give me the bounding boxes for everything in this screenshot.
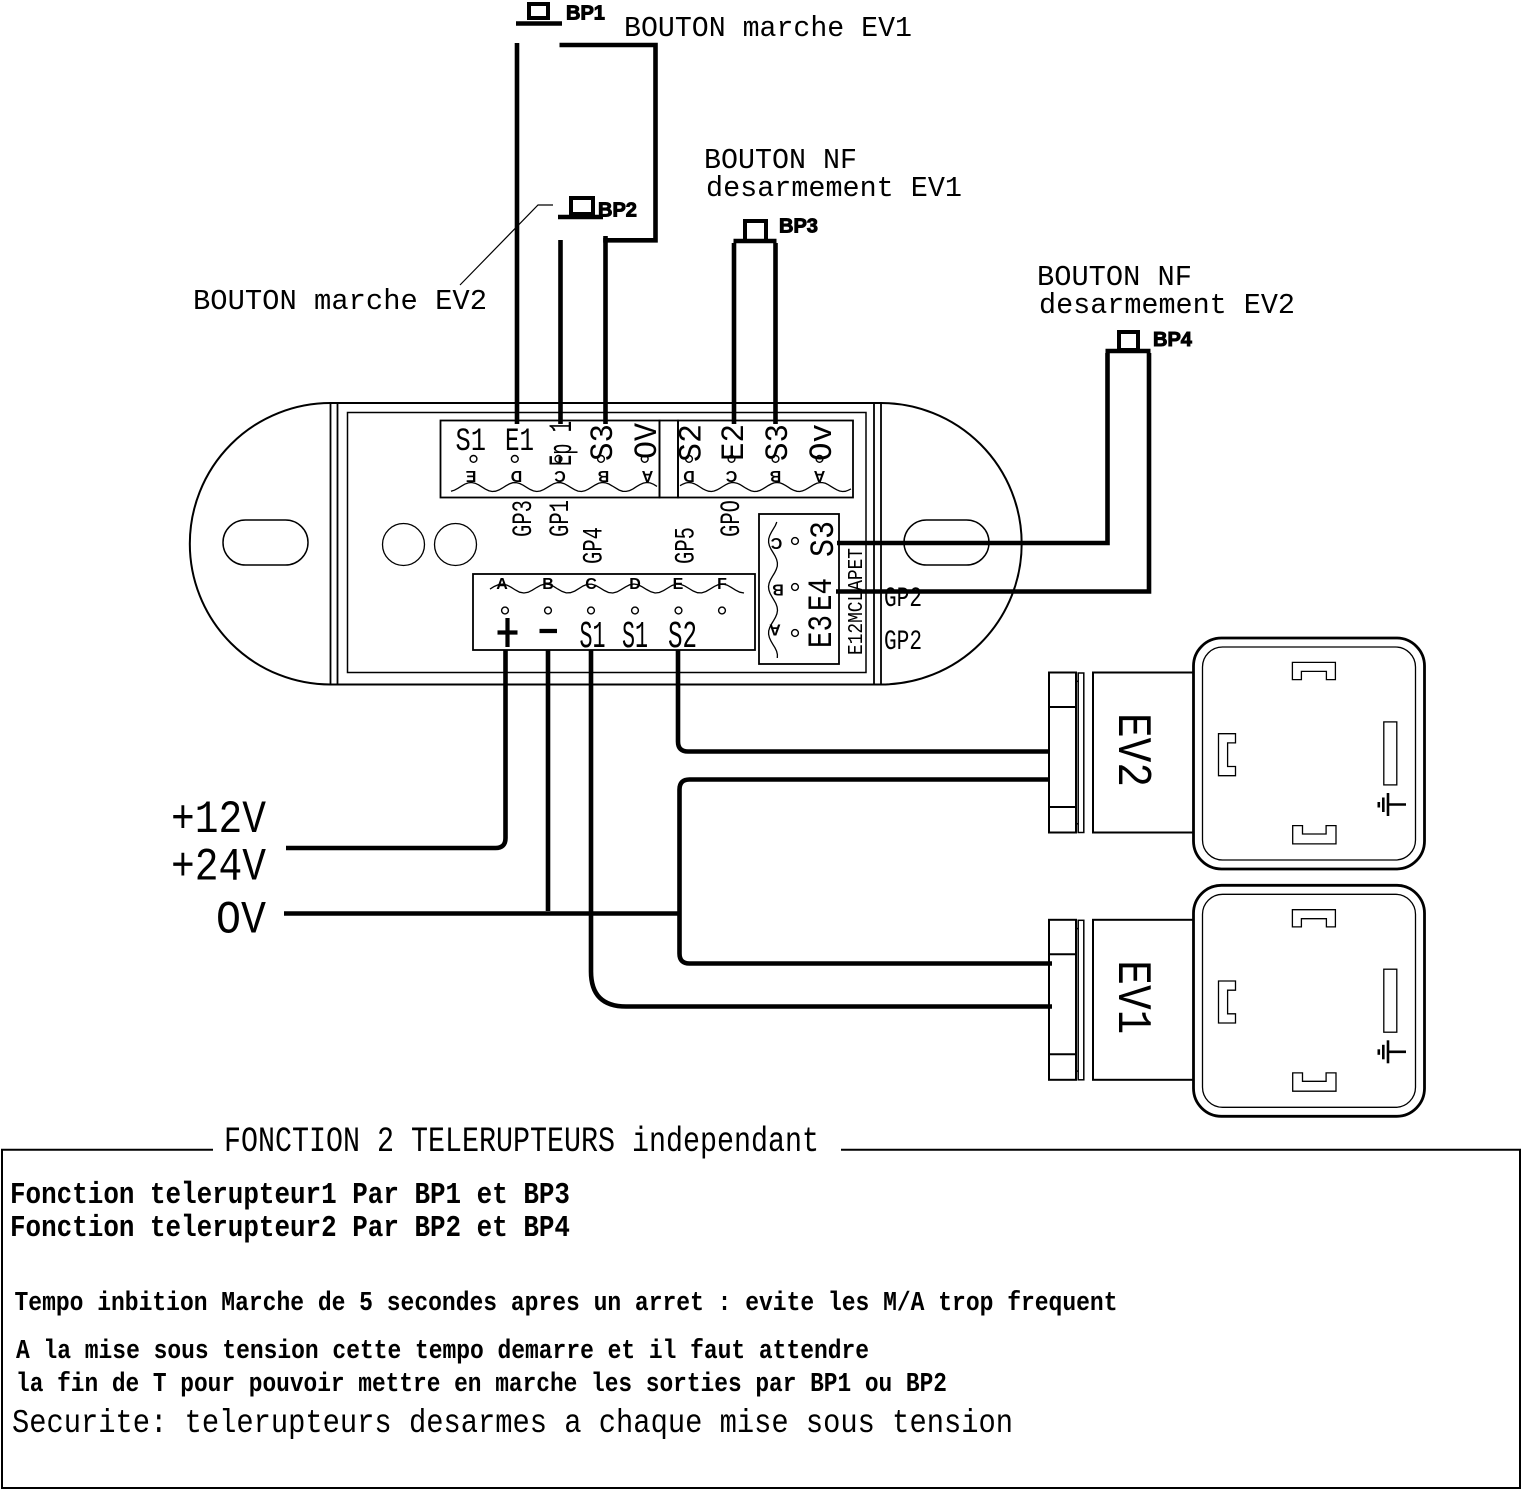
terminal point 0V: [641, 456, 648, 463]
label minus: [540, 629, 558, 633]
svg-text:C: C: [770, 534, 782, 551]
svg-text:B: B: [770, 467, 782, 484]
wire BP4 left down and left to terminal S3 of E3E4S3 block: [837, 353, 1108, 543]
pin slot right EV1: [1384, 969, 1397, 1032]
svg-text:GP4: GP4: [580, 527, 611, 564]
svg-text:D: D: [683, 467, 695, 484]
svg-text:FONCTION 2 TELERUPTEURS indepe: FONCTION 2 TELERUPTEURS independant: [224, 1122, 819, 1162]
leader line to BP2: [460, 205, 553, 285]
coil body EV1: [1093, 920, 1194, 1080]
connector wavy edge bottom block: [490, 584, 744, 593]
terminal point S3: [792, 538, 799, 545]
svg-text:+24V: +24V: [171, 842, 266, 894]
pin slot left EV2: [1219, 734, 1236, 776]
wire node above BP2 down to terminal S3: [603, 236, 608, 424]
module flange line left inner: [337, 403, 339, 685]
module flange line right outer: [880, 403, 882, 685]
pin slot top EV2: [1292, 662, 1335, 679]
coil body EV2: [1093, 673, 1194, 833]
svg-text:B: B: [772, 581, 784, 598]
connector wavy edge E3E4S3 block: [769, 522, 778, 658]
label plus: [498, 618, 518, 647]
svg-text:D: D: [629, 576, 641, 593]
wire BP3 right to terminal S3 (right block): [773, 243, 778, 424]
terminal block + - S1 S1 S2: [473, 574, 755, 650]
relay socket EV2 outline: [1194, 638, 1425, 869]
svg-text:B: B: [542, 576, 554, 593]
wire terminal E S2 down and right to EV2 pin1: [678, 650, 1050, 752]
svg-text:C: C: [725, 467, 737, 484]
ground symbol EV2: [1387, 793, 1390, 816]
svg-text:Fonction telerupteur2 Par BP2: Fonction telerupteur2 Par BP2 et BP4: [10, 1211, 570, 1246]
terminal block S1 E1 Ep1 S3 0V: [441, 421, 660, 498]
svg-text:Fonction telerupteur1 Par BP1: Fonction telerupteur1 Par BP1 et BP3: [10, 1178, 570, 1213]
module inner board rectangle: [348, 413, 867, 673]
wire terminal A plus down-left to supply: [286, 650, 506, 848]
svg-text:OV: OV: [629, 422, 666, 459]
terminal point C bottom block: [588, 607, 595, 614]
pin slot top EV1: [1292, 910, 1335, 927]
terminal point S2: [686, 456, 693, 463]
terminal point S3b: [772, 456, 779, 463]
svg-text:S1: S1: [456, 423, 487, 460]
wire terminal C S1 down and right to EV1 pin2: [591, 650, 1052, 1007]
terminal block spacer: [660, 421, 679, 498]
pin slot bottom EV2: [1293, 826, 1336, 844]
svg-text:BOUTON marche EV2: BOUTON marche EV2: [193, 285, 487, 318]
svg-text:Tempo inbition Marche de 5 sec: Tempo inbition Marche de 5 secondes apre…: [15, 1289, 1118, 1319]
ground symbol EV1: [1387, 1040, 1390, 1063]
svg-text:A: A: [496, 576, 508, 593]
module hole 1: [383, 524, 425, 566]
svg-text:S1: S1: [622, 616, 648, 659]
svg-text:Ep 1: Ep 1: [544, 421, 581, 466]
svg-text:GP2: GP2: [884, 584, 922, 615]
module flange line right inner: [873, 403, 875, 685]
svg-text:EV2: EV2: [1104, 713, 1158, 787]
terminal point B bottom block: [545, 607, 552, 614]
svg-text:Securite: telerupteurs desarme: Securite: telerupteurs desarmes a chaque…: [12, 1405, 1013, 1442]
svg-text:BP4: BP4: [1153, 329, 1193, 351]
svg-text:GP1: GP1: [546, 500, 577, 537]
terminal point S3: [598, 456, 605, 463]
wire BP4 right down and left to terminal E4: [836, 353, 1149, 592]
svg-text:A: A: [813, 467, 825, 484]
svg-text:A: A: [769, 621, 781, 638]
svg-text:S3: S3: [585, 424, 622, 461]
notes box border: [2, 1150, 1520, 1488]
connector wavy edge right block: [680, 483, 851, 492]
svg-text:GP3: GP3: [509, 500, 540, 537]
svg-text:E12MCLAPET: E12MCLAPET: [846, 548, 869, 655]
pushbutton BP4 (NC): [1106, 332, 1151, 351]
connector wavy edge left block: [451, 483, 657, 492]
svg-text:OV: OV: [216, 895, 266, 947]
svg-text:BP3: BP3: [779, 216, 818, 238]
svg-text:A la mise sous tension cette t: A la mise sous tension cette tempo demar…: [16, 1337, 869, 1367]
mounting slot right: [904, 520, 989, 565]
relay socket EV1 outline: [1194, 885, 1425, 1116]
terminal point F bottom block: [719, 607, 726, 614]
terminal point Ep1: [555, 456, 562, 463]
svg-text:E1: E1: [505, 423, 534, 460]
connector strip EV2: [1049, 673, 1084, 833]
wire BP1 right contact to node above BP2: [560, 45, 656, 240]
terminal point E4: [792, 584, 799, 591]
wire BP2 left contact to terminal Ep1: [558, 240, 563, 424]
wire BP3 left to terminal E2: [732, 243, 737, 424]
svg-text:la fin de T pour pouvoir mettr: la fin de T pour pouvoir mettre en march…: [16, 1370, 947, 1400]
svg-text:+12V: +12V: [171, 794, 266, 846]
module flange line left outer: [330, 403, 332, 685]
pin slot bottom EV1: [1293, 1073, 1336, 1091]
svg-text:S2: S2: [674, 424, 711, 462]
connector strip EV1: [1049, 920, 1084, 1080]
terminal point A bottom block: [502, 607, 509, 614]
terminal point E bottom block: [675, 607, 682, 614]
terminal point E1: [511, 456, 518, 463]
pushbutton BP1: [516, 4, 562, 24]
svg-text:BP2: BP2: [598, 200, 637, 222]
wire EV2 pin2 to 0V junction to EV1 pin1: [680, 780, 1053, 964]
svg-text:A: A: [641, 467, 653, 484]
svg-text:E4: E4: [804, 578, 842, 611]
svg-text:S2: S2: [668, 616, 697, 659]
svg-text:BOUTON marche EV1: BOUTON marche EV1: [624, 12, 912, 45]
svg-text:E: E: [465, 467, 476, 484]
svg-text:desarmement EV2: desarmement EV2: [1039, 289, 1295, 322]
svg-text:GP2: GP2: [884, 627, 922, 658]
svg-text:D: D: [511, 467, 523, 484]
wire BP1 left contact to terminal E1: [515, 43, 520, 424]
svg-text:E2: E2: [716, 424, 753, 461]
pin slot right EV2: [1384, 722, 1397, 785]
terminal block E3 E4 S3: [759, 514, 839, 664]
svg-text:GP5: GP5: [672, 527, 703, 564]
svg-text:S3: S3: [760, 424, 797, 461]
svg-text:B: B: [598, 467, 610, 484]
terminal point E3: [792, 630, 799, 637]
svg-text:C: C: [554, 467, 566, 484]
svg-text:EV1: EV1: [1104, 960, 1158, 1034]
module hole 2: [435, 524, 477, 566]
svg-text:Ov: Ov: [804, 424, 841, 461]
mounting slot left: [223, 520, 308, 565]
terminal point S1: [470, 456, 477, 463]
module body stadium outline: [190, 403, 1022, 685]
svg-text:S3: S3: [806, 521, 844, 557]
terminal block S2 E2 S3 Ov: [678, 421, 853, 498]
svg-text:GPO: GPO: [717, 500, 748, 537]
wire 0V line: [284, 911, 680, 916]
terminal point D bottom block: [632, 607, 639, 614]
pushbutton BP2: [558, 198, 603, 217]
wire terminal B minus down to 0V line: [546, 650, 551, 911]
terminal point Ov: [816, 456, 823, 463]
svg-text:BP1: BP1: [566, 3, 605, 25]
terminal point E2: [728, 456, 735, 463]
svg-text:E3: E3: [804, 615, 842, 648]
svg-text:E: E: [673, 576, 684, 593]
svg-text:C: C: [585, 576, 597, 593]
pushbutton BP3 (NC): [734, 221, 777, 241]
svg-text:desarmement EV1: desarmement EV1: [706, 172, 962, 205]
svg-text:F: F: [717, 576, 727, 593]
pin slot left EV1: [1219, 981, 1236, 1023]
